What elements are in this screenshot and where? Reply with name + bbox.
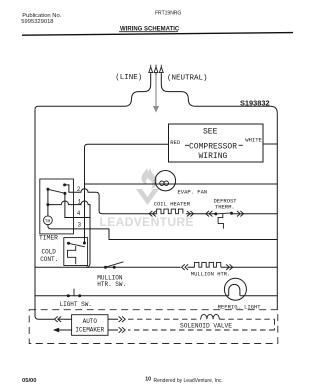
refrigerator light bulb circle (224, 278, 246, 300)
light switch left dot (67, 294, 70, 297)
wire: evap fan rung (85, 183, 278, 185)
compressor box U1 (169, 124, 264, 162)
cold control box (64, 238, 88, 266)
light switch right dot (78, 294, 81, 297)
cold control bellows (68, 246, 76, 264)
svg-text:Publication No.: Publication No. (22, 13, 61, 19)
cold control right contact dot (83, 242, 86, 245)
wire: white compressor to neutral (263, 143, 277, 145)
connector chevrons left of mullion heater (182, 264, 189, 270)
svg-text:ICEMAKER: ICEMAKER (75, 326, 104, 333)
plug prong right (159, 65, 163, 75)
wire: dash red to text (185, 144, 189, 146)
connector chevrons right of coil heater (187, 211, 194, 217)
wire: terminal 1 rung (48, 201, 90, 267)
timer pole contact dot (46, 188, 49, 191)
wire: icemaker bottom right stub (108, 329, 118, 331)
wire: terminal 3 / timer motor return (48, 225, 277, 240)
defrost thermostat blade (216, 213, 232, 214)
solenoid valve coil (201, 314, 220, 319)
svg-text:(NEUTRAL): (NEUTRAL) (167, 74, 208, 82)
svg-text:WHITE: WHITE (245, 136, 262, 143)
mullion switch left dot (104, 266, 107, 269)
svg-text:5995329018: 5995329018 (21, 19, 53, 25)
timer box (40, 179, 74, 234)
defrost thermostat bimetal (218, 214, 223, 229)
junction node (46, 203, 49, 206)
timer motor TM circle (44, 216, 53, 225)
svg-text:2: 2 (77, 186, 81, 193)
wire: left main vertical (35, 110, 38, 320)
dashed wire to solenoid (128, 318, 201, 320)
svg-text:MULLION HTR.: MULLION HTR. (191, 271, 231, 278)
svg-text:HTR. SW.: HTR. SW. (97, 281, 126, 288)
wire: right line drop from plug (161, 75, 277, 114)
svg-text:EVAP. FAN: EVAP. FAN (178, 188, 208, 195)
svg-text:10: 10 (145, 377, 151, 383)
wire: dash text to white (239, 144, 243, 146)
svg-text:05/00: 05/00 (22, 378, 37, 384)
svg-text:CONT.: CONT. (40, 256, 58, 263)
svg-text:Rendered by LeadVenture, Inc.: Rendered by LeadVenture, Inc. (154, 378, 223, 384)
svg-text:SEE: SEE (203, 127, 218, 136)
mullion switch blade (106, 262, 124, 267)
connector chevrons right bottom (119, 327, 126, 333)
cold control blade (69, 243, 85, 247)
wire: red compressor feed (85, 144, 169, 184)
timer contact 4 dot (63, 192, 66, 195)
wire: timer pole vertical (47, 189, 49, 216)
connector chevrons left of defrost thermostat (206, 211, 213, 217)
svg-text:3: 3 (78, 221, 82, 228)
wire: mullion heater rung (35, 266, 277, 268)
svg-text:COLD: COLD (42, 248, 57, 255)
evap fan winding loops (160, 181, 164, 185)
connector chevrons left of coil heater (149, 211, 156, 217)
plug prong middle (154, 65, 158, 75)
evap fan motor circle (155, 171, 175, 191)
filled arrow to water valve (53, 328, 59, 333)
svg-text:TM: TM (45, 219, 51, 225)
wire: light rung (35, 295, 277, 297)
cold control left contact dot (67, 242, 70, 245)
svg-text:(LINE): (LINE) (115, 74, 142, 82)
timer contact 2 dot (63, 183, 66, 186)
bulb filament (229, 284, 240, 295)
svg-text:COMPRESSOR: COMPRESSOR (189, 143, 237, 152)
wire: icemaker to solenoid (top) (108, 318, 118, 320)
connector chevrons right of mullion heater (226, 264, 233, 270)
wire: left line drop from plug (35, 75, 151, 110)
mullion switch right dot (113, 266, 116, 269)
svg-text:LIGHT SW.: LIGHT SW. (60, 301, 92, 308)
coil heater element (157, 209, 183, 214)
svg-text:THERM.: THERM. (215, 204, 235, 211)
svg-text:AUTO: AUTO (83, 318, 98, 325)
connector chevrons right top (119, 316, 126, 322)
wire: main mid vertical (to cold control) (84, 184, 86, 243)
ground arrow (gray, pointing down) (153, 75, 159, 113)
wire: terminal 2 to defrost rung (65, 185, 157, 214)
svg-text:RED: RED (170, 139, 181, 146)
wire: icemaker water valve stub (59, 329, 72, 331)
svg-text:WIRING: WIRING (199, 152, 228, 161)
svg-text:FRT19NRG: FRT19NRG (155, 11, 181, 17)
svg-text:TIMER: TIMER (39, 234, 58, 241)
header rule (22, 33, 293, 36)
svg-text:4: 4 (77, 210, 81, 217)
defrost thermostat right dot (230, 212, 233, 215)
defrost thermostat left dot (214, 212, 217, 215)
icemaker dashed enclosure (29, 310, 278, 344)
dashed wire solenoid to right (128, 319, 275, 330)
connector chevrons icemaker feed (55, 316, 62, 322)
connector chevrons right of defrost thermostat (237, 211, 244, 217)
svg-text:LEADVENTURE: LEADVENTURE (100, 215, 194, 229)
watermark flame logo (136, 168, 159, 205)
wire: terminal 4 rung (65, 193, 90, 217)
svg-text:SOLENOID VALVE: SOLENOID VALVE (180, 322, 232, 329)
wire: coil heater / defrost rung (186, 213, 277, 215)
svg-text:COIL HEATER: COIL HEATER (154, 201, 191, 208)
timer blade (48, 189, 65, 193)
header: title underline (119, 30, 178, 33)
plug prong left (149, 65, 153, 75)
auto icemaker box (72, 315, 108, 336)
mullion heater element (195, 262, 221, 267)
wire: icemaker feed (38, 318, 71, 320)
wire: right main vertical (276, 113, 278, 310)
svg-text:1: 1 (78, 198, 82, 205)
light switch plunger (73, 289, 75, 296)
